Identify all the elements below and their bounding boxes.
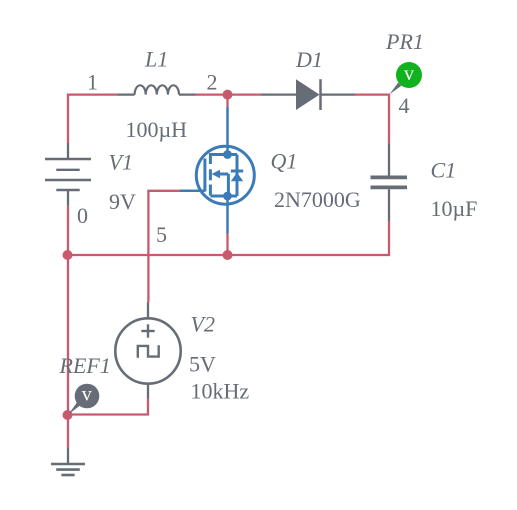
- wire capacitor to bottom bus corner: [228, 221, 390, 255]
- svg-text:C1: C1: [431, 158, 457, 183]
- wire diode to node 4 corner and down to capacitor: [355, 95, 389, 144]
- wire node2 to mosfet drain (pink part): [226, 95, 228, 107]
- node 4 label: [399, 93, 410, 118]
- label C1: [431, 158, 457, 183]
- svg-text:2: 2: [207, 70, 218, 95]
- battery V1: [45, 143, 91, 206]
- wire gate to V2 (pink): [148, 191, 180, 302]
- junction node 2: [223, 90, 233, 100]
- wire battery to bus: [67, 206, 69, 255]
- label V2: [191, 312, 215, 337]
- svg-text:100µH: 100µH: [126, 117, 188, 142]
- label L1: [144, 46, 168, 71]
- svg-text:v: v: [82, 384, 92, 406]
- wire bus left segment: [68, 254, 228, 256]
- svg-text:REF1: REF1: [59, 353, 111, 378]
- mosfet Q1: [180, 146, 254, 204]
- wire V2 bottom to ref junction: [68, 399, 149, 415]
- diode D1: [261, 79, 355, 110]
- svg-text:0: 0: [77, 203, 88, 228]
- wire mosfet source to bus (pink): [226, 234, 228, 256]
- value 10µF: [431, 196, 478, 221]
- value 9V: [109, 189, 136, 214]
- source V2: [115, 302, 180, 398]
- value 100µH: [126, 117, 188, 142]
- svg-text:PR1: PR1: [385, 29, 424, 54]
- svg-text:Q1: Q1: [271, 149, 298, 174]
- node 5 label: [156, 222, 167, 247]
- svg-text:D1: D1: [295, 47, 323, 72]
- probe PR1: [390, 62, 423, 94]
- svg-text:L1: L1: [144, 46, 168, 71]
- probe REF1: [69, 384, 100, 415]
- svg-text:V2: V2: [191, 312, 215, 337]
- wire bus to ref junction: [67, 255, 69, 415]
- label REF1: [59, 353, 111, 378]
- svg-text:10kHz: 10kHz: [191, 379, 250, 404]
- label D1: [295, 47, 323, 72]
- label V1: [109, 149, 133, 174]
- wire mosfet source lead (blue): [226, 196, 229, 234]
- junction battery branch on bus: [63, 250, 73, 260]
- wire net1: battery top to inductor: [68, 95, 118, 143]
- ground: [51, 448, 85, 475]
- inductor L1: [118, 85, 196, 94]
- label Q1: [271, 149, 298, 174]
- wire mosfet drain lead (blue): [226, 107, 229, 155]
- svg-text:9V: 9V: [109, 189, 136, 214]
- value 2N7000G: [274, 187, 361, 212]
- node 2 label: [207, 70, 218, 95]
- value 5V: [189, 352, 216, 377]
- junction mosfet source on bus: [223, 250, 233, 260]
- value 10kHz: [191, 379, 250, 404]
- svg-text:2N7000G: 2N7000G: [274, 187, 361, 212]
- svg-text:5V: 5V: [189, 352, 216, 377]
- svg-text:1: 1: [87, 70, 98, 95]
- svg-text:v: v: [404, 63, 414, 85]
- svg-text:10µF: 10µF: [431, 196, 478, 221]
- node 0 label: [77, 203, 88, 228]
- node 1: [87, 70, 98, 95]
- svg-text:5: 5: [156, 222, 167, 247]
- wire ref junction to ground: [67, 415, 69, 448]
- junction ref node: [63, 410, 73, 420]
- label PR1: [385, 29, 424, 54]
- capacitor C1: [371, 143, 408, 221]
- wire inductor to node 2: [196, 93, 228, 95]
- wire node2 to diode: [228, 93, 262, 95]
- svg-text:V1: V1: [109, 149, 133, 174]
- svg-text:4: 4: [399, 93, 410, 118]
